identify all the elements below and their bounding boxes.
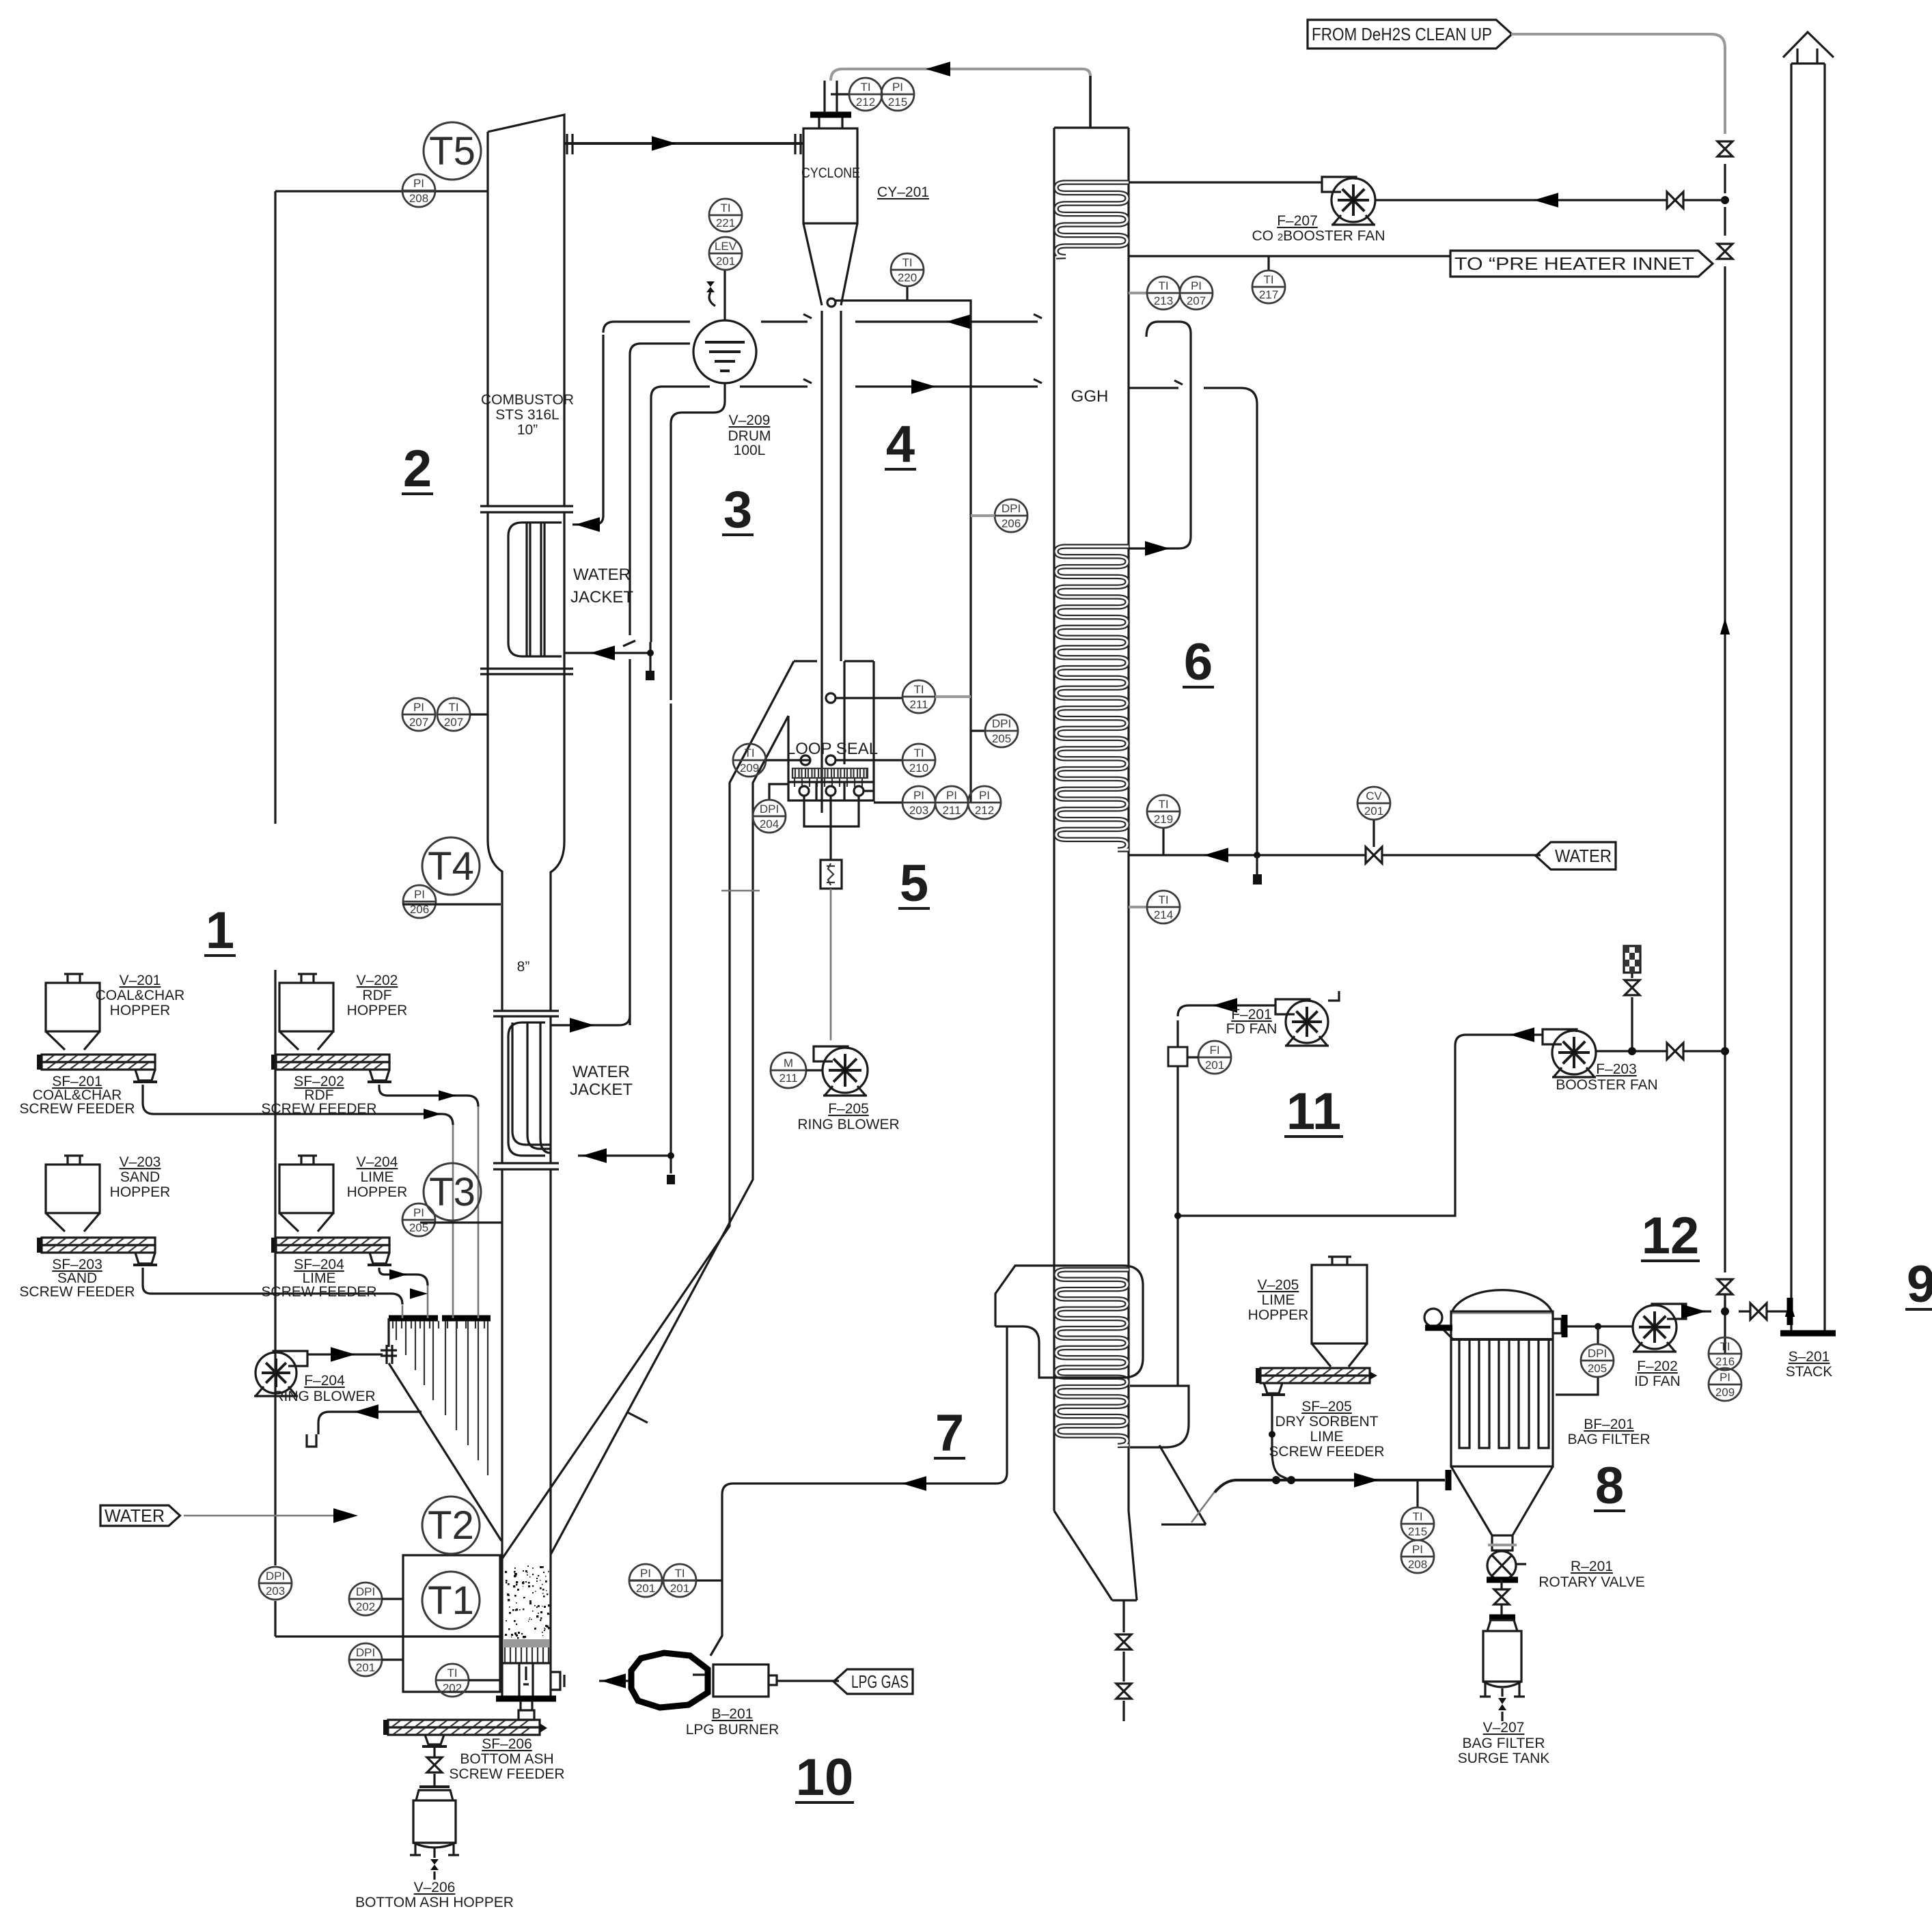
FD fan air line into box B [1176, 1020, 1178, 1386]
svg-text:S–201: S–201 [1789, 1349, 1830, 1365]
svg-text:6: 6 [1184, 633, 1213, 691]
instrument PI-205 [402, 1203, 435, 1236]
fan symbol at 404,2010 [273, 1351, 307, 1366]
crossing line y568 to riser x1840 with jump break [1129, 380, 1257, 855]
svg-text:TI: TI [1158, 893, 1168, 906]
svg-text:V–204: V–204 [357, 1154, 398, 1170]
temperature zone label T4 [422, 837, 480, 895]
svg-text:11: 11 [1286, 1083, 1341, 1141]
svg-text:RING BLOWER: RING BLOWER [273, 1389, 375, 1404]
temperature zone label T1 [422, 1572, 480, 1629]
fan symbol at 1981,293 [1322, 177, 1356, 192]
instrument TI-212 [849, 78, 882, 111]
svg-text:FI: FI [1209, 1044, 1219, 1057]
svg-text:SCREW FEEDER: SCREW FEEDER [449, 1766, 564, 1782]
wire drum right to GGH upper (y471) [761, 314, 1042, 322]
svg-text:PI: PI [1191, 279, 1202, 292]
svg-text:100L: 100L [734, 443, 766, 458]
TI-217 tap [1267, 256, 1269, 270]
windbox internals [519, 1663, 533, 1697]
svg-text:TI: TI [1720, 1340, 1730, 1353]
svg-text:201: 201 [716, 255, 735, 268]
svg-text:WATER: WATER [1555, 846, 1612, 866]
svg-text:F–207: F–207 [1277, 213, 1318, 229]
V-206 bottom ash hopper [419, 1785, 450, 1788]
svg-text:RING BLOWER: RING BLOWER [797, 1117, 899, 1132]
valve (vertical) at 2525,368 [1717, 244, 1733, 259]
svg-text:DPI: DPI [1002, 502, 1021, 515]
svg-text:207: 207 [1187, 294, 1206, 307]
svg-text:HOPPER: HOPPER [110, 1184, 171, 1200]
svg-text:209: 209 [1715, 1386, 1735, 1399]
wire jacket outlet to valve [564, 642, 650, 671]
svg-text:DPI: DPI [266, 1570, 285, 1583]
hopper V&#8211;202 RDF [298, 974, 317, 983]
svg-text:V–207: V–207 [1483, 1720, 1525, 1736]
svg-text:PI: PI [1412, 1543, 1423, 1556]
lime feed line SF-204 [379, 1268, 428, 1285]
svg-text:5: 5 [900, 854, 928, 913]
screw feeder SF&#8211;203 SAND [42, 1238, 155, 1245]
svg-text:COMBUSTOR: COMBUSTOR [481, 392, 574, 408]
svg-text:214: 214 [1154, 908, 1173, 921]
svg-text:201: 201 [356, 1661, 375, 1674]
instrument DPI-204 [753, 800, 786, 833]
pulse header circle [1424, 1309, 1442, 1326]
svg-text:PI: PI [946, 789, 957, 802]
fan symbol at 2422,1943 [1652, 1304, 1686, 1319]
instrument DPI-201 [349, 1643, 382, 1676]
windbox burner nozzle right [551, 1672, 564, 1690]
instrument M-211 [771, 1053, 806, 1088]
svg-text:TI: TI [448, 701, 458, 714]
svg-text:WATER: WATER [105, 1505, 165, 1526]
svg-text:220: 220 [898, 271, 917, 284]
svg-text:LEV: LEV [715, 240, 737, 253]
loop seal air header [804, 796, 859, 860]
temperature zone label T5 [424, 122, 481, 180]
svg-text:10: 10 [796, 1749, 854, 1807]
svg-text:207: 207 [409, 716, 428, 729]
instrument DPI-202 [349, 1583, 382, 1615]
combustor flange below upper jacket [480, 669, 573, 674]
flag TO &#8220;PRE HEATER INNET [1450, 251, 1713, 277]
svg-text:V–206: V–206 [414, 1880, 456, 1895]
svg-text:STS 316L: STS 316L [495, 407, 559, 423]
combustor flange at y1484 [493, 1011, 559, 1016]
wire lower jacket return up to drum [551, 1016, 630, 1025]
svg-text:210: 210 [909, 762, 928, 775]
instrument PI-211 [935, 786, 968, 819]
instrument PI-208 [1401, 1540, 1434, 1573]
svg-text:215: 215 [1408, 1525, 1427, 1538]
loop seal aeration nozzles [799, 786, 809, 796]
svg-text:LIME: LIME [1310, 1429, 1343, 1445]
instrument CV-201 [1357, 787, 1390, 820]
svg-text:TI: TI [720, 201, 730, 214]
TI-215 PI-208 tap [1416, 1480, 1418, 1507]
svg-text:201: 201 [636, 1582, 655, 1595]
svg-text:PI: PI [414, 888, 425, 901]
valve (horizontal) at 2452,293 [1667, 192, 1683, 208]
svg-text:HOPPER: HOPPER [1248, 1307, 1309, 1323]
air outlet from box A down to burner line [710, 1326, 1007, 1656]
svg-text:M: M [784, 1057, 793, 1070]
svg-text:208: 208 [409, 192, 428, 205]
svg-text:F–204: F–204 [304, 1373, 345, 1389]
lower water jacket [508, 1022, 545, 1156]
instrument TI-201 [663, 1564, 696, 1597]
svg-text:208: 208 [1408, 1558, 1427, 1571]
burner blob [631, 1653, 708, 1708]
valve (vertical) at 2525,218 [1717, 141, 1733, 156]
svg-text:BOTTOM ASH HOPPER: BOTTOM ASH HOPPER [355, 1895, 514, 1910]
screw feeder SF&#8211;202 RDF [276, 1055, 389, 1062]
weld tick on downcomer (upper, grey) [721, 890, 760, 892]
hopper V&#8211;201 COAL&amp;CHAR [64, 974, 83, 983]
svg-text:SF–205: SF–205 [1301, 1399, 1352, 1415]
svg-text:201: 201 [1205, 1059, 1224, 1072]
SF-206 bottom ash screw feeder [388, 1720, 540, 1727]
svg-text:1: 1 [206, 902, 234, 960]
valve (vertical) at 1645,2476 [1116, 1684, 1131, 1699]
instrument FI-201 [1198, 1041, 1231, 1074]
svg-text:202: 202 [443, 1682, 462, 1695]
svg-text:JACKET: JACKET [570, 1081, 633, 1099]
svg-text:SCREW FEEDER: SCREW FEEDER [261, 1284, 376, 1300]
svg-text:202: 202 [356, 1600, 375, 1613]
svg-text:CYCLONE: CYCLONE [801, 165, 860, 181]
TI-213 PI-207 tap [1129, 292, 1147, 294]
instrument PI-212 [968, 786, 1001, 819]
svg-text:BAG FILTER: BAG FILTER [1568, 1432, 1651, 1447]
instrument TI-207 [437, 698, 470, 731]
valve (horizontal) at 2452,1539 [1667, 1043, 1683, 1059]
svg-text:DRUM: DRUM [728, 428, 771, 444]
valve (horizontal) at 2011,1252 [1366, 847, 1382, 863]
svg-text:TI: TI [902, 256, 912, 269]
svg-text:PI: PI [413, 701, 424, 714]
cyclone cone [803, 223, 857, 305]
svg-text:219: 219 [1154, 813, 1173, 826]
svg-text:216: 216 [1715, 1355, 1735, 1368]
svg-text:PI: PI [413, 177, 424, 190]
svg-text:ID FAN: ID FAN [1634, 1374, 1681, 1389]
bag filter inlet flange [1446, 1470, 1452, 1490]
svg-text:SCREW FEEDER: SCREW FEEDER [1269, 1444, 1384, 1460]
svg-text:TI: TI [913, 747, 924, 760]
feed drop lines from screw feeders [402, 1104, 478, 1318]
wire drum left 9oclock (pipe2) [623, 344, 690, 1025]
sand feed line SF-203 [143, 1268, 402, 1305]
combustor lower shell to bed [502, 1169, 551, 1697]
svg-text:V–203: V–203 [120, 1154, 161, 1170]
svg-text:9: 9 [1907, 1255, 1932, 1313]
wire lower jacket inlet from drum pipe [578, 704, 671, 1173]
V-207 surge tank [1489, 1615, 1515, 1621]
gas outlet line combustor to cyclone [564, 142, 803, 145]
svg-text:LPG BURNER: LPG BURNER [686, 1722, 779, 1738]
instrument PI-215 [881, 78, 914, 111]
PI-208 long tap line down the left side [376, 190, 488, 192]
svg-text:SAND: SAND [120, 1169, 160, 1185]
instrument TI-220 [891, 253, 924, 286]
svg-text:SF–206: SF–206 [482, 1736, 532, 1752]
weld tick on downcomer [626, 1412, 648, 1423]
orifice box FI-201 [1168, 1047, 1187, 1066]
instrument TI-215 [1401, 1507, 1434, 1540]
svg-text:12: 12 [1642, 1207, 1700, 1265]
flag LPG GAS [833, 1669, 913, 1694]
svg-text:207: 207 [444, 716, 463, 729]
svg-text:8: 8 [1595, 1457, 1624, 1515]
temperature zone label T2 [422, 1496, 480, 1554]
loop seal hatch band [792, 768, 867, 778]
bag filter neck, rotary valve R-201 [1492, 1535, 1513, 1550]
svg-text:ROTARY VALVE: ROTARY VALVE [1538, 1574, 1645, 1590]
svg-text:WATER: WATER [573, 566, 631, 584]
svg-text:PI: PI [913, 789, 924, 802]
water spray line into GGH [1129, 854, 1541, 856]
GGH lower coil [1056, 1270, 1129, 1445]
fan symbol at 1913,1496 [1275, 999, 1310, 1014]
lime drop line to flue duct [1272, 1395, 1290, 1480]
svg-text:BOTTOM ASH: BOTTOM ASH [460, 1751, 553, 1767]
CV-201 control valve actuator [1372, 820, 1375, 847]
svg-text:STACK: STACK [1786, 1364, 1832, 1380]
instrument DPI-205 [985, 714, 1018, 747]
instrument TI-210 [902, 744, 935, 777]
svg-text:204: 204 [760, 818, 779, 831]
svg-text:HOPPER: HOPPER [347, 1003, 408, 1018]
svg-text:TI: TI [674, 1567, 685, 1580]
hopper V&#8211;204 LIME [298, 1156, 317, 1165]
svg-text:205: 205 [992, 732, 1011, 745]
upper water jacket [508, 523, 562, 656]
svg-text:10”: 10” [517, 422, 538, 438]
svg-text:T2: T2 [428, 1503, 474, 1548]
stack S-201 [1791, 64, 1825, 1333]
cyclone CY-201 body [803, 128, 857, 223]
instrument PI-207 [402, 698, 435, 731]
svg-text:HOPPER: HOPPER [347, 1184, 408, 1200]
F-205 suction line [830, 889, 832, 1040]
svg-text:206: 206 [1002, 517, 1021, 530]
combustor flange at y1708 [493, 1163, 559, 1169]
svg-text:BF–201: BF–201 [1584, 1417, 1634, 1432]
svg-text:TI: TI [744, 747, 754, 760]
GGH flue outlet duct to bag filter [1159, 1445, 1206, 1524]
svg-text:7: 7 [935, 1404, 964, 1462]
svg-text:212: 212 [856, 96, 875, 109]
outlet nozzle top right [1553, 1319, 1562, 1333]
svg-text:TO “PRE HEATER INNET: TO “PRE HEATER INNET [1454, 253, 1694, 274]
svg-text:221: 221 [716, 217, 735, 229]
TI tap lines on GGH right [1162, 828, 1164, 855]
svg-text:PI: PI [1720, 1371, 1730, 1384]
drain valve small [667, 1175, 675, 1184]
svg-text:LPG GAS: LPG GAS [851, 1671, 909, 1692]
svg-text:217: 217 [1259, 288, 1278, 301]
wire drum to jacket top (pipe1) [603, 322, 690, 333]
instrument DPI-206 [995, 499, 1027, 532]
flag WATER [1536, 842, 1616, 869]
distributor teeth [505, 1647, 549, 1662]
instrument PI-201 [629, 1564, 662, 1597]
valve (horizontal) at 2574,1920 [1750, 1303, 1767, 1320]
svg-text:TI: TI [1263, 273, 1273, 286]
svg-text:RDF: RDF [362, 988, 391, 1003]
instrument TI-213 [1147, 277, 1180, 309]
svg-text:T4: T4 [428, 844, 474, 889]
svg-text:B–201: B–201 [712, 1706, 754, 1722]
instrument PI-208 [402, 174, 435, 207]
svg-text:201: 201 [1364, 805, 1383, 818]
svg-text:211: 211 [942, 804, 961, 817]
instrument DPI-205 [1581, 1344, 1614, 1377]
svg-text:F–201: F–201 [1231, 1007, 1272, 1022]
svg-text:CV: CV [1366, 790, 1382, 803]
wire drum 8oclock (pipe3) [651, 387, 710, 642]
svg-text:F–203: F–203 [1596, 1061, 1637, 1077]
fan symbol at 1237,1567 [814, 1046, 848, 1061]
valve (vertical) at 2389,1446 [1625, 980, 1640, 995]
svg-text:DPI: DPI [356, 1585, 375, 1598]
instrument LEV-201 [709, 237, 742, 270]
svg-text:203: 203 [909, 804, 928, 817]
instrument PI-207 [1180, 277, 1213, 309]
svg-text:DPI: DPI [1588, 1347, 1607, 1360]
branch to F-203 booster fan [1178, 1035, 1543, 1216]
svg-text:R–201: R–201 [1571, 1559, 1613, 1574]
instrument PI-203 [902, 786, 935, 819]
svg-text:HOPPER: HOPPER [110, 1003, 171, 1018]
instrument TI-216 [1709, 1337, 1741, 1370]
riser line from cyclone cone to GGH area [836, 301, 971, 803]
svg-text:211: 211 [779, 1072, 797, 1085]
valve (vertical) at 2525,1884 [1717, 1279, 1733, 1294]
svg-text:TI: TI [1158, 279, 1168, 292]
long feed pipes inside funnel [396, 1321, 488, 1475]
instrument PI-209 [1709, 1368, 1741, 1401]
svg-text:COAL&CHAR: COAL&CHAR [96, 988, 185, 1003]
svg-text:TI: TI [1158, 798, 1168, 811]
F-207 CO2 booster fan line [1375, 199, 1725, 201]
svg-text:V–205: V–205 [1258, 1277, 1299, 1293]
silencer box on F-205 line [820, 860, 842, 889]
svg-text:CO 2BOOSTER FAN: CO 2BOOSTER FAN [1252, 228, 1385, 244]
wire drum bottom (pipe4) [671, 383, 725, 700]
svg-text:T5: T5 [429, 129, 475, 173]
valve (vertical) at 1645,2404 [1116, 1634, 1131, 1649]
cyclone top nozzle and flange [819, 117, 842, 128]
instrument PI-206 [403, 885, 436, 918]
drum vent line with valve [723, 270, 726, 320]
riser down right side [1724, 164, 1726, 1311]
cyclone outlet elbow to GGH (grey) [831, 69, 1090, 128]
instrument TI-211 [902, 680, 935, 713]
funnel walls [389, 1318, 501, 1541]
F-207 suction/discharge lines at GGH top [1129, 181, 1323, 183]
combustor shell (wide 10in section) [488, 115, 564, 506]
svg-text:WATER: WATER [572, 1063, 630, 1081]
svg-text:PI: PI [892, 81, 903, 94]
coal feed line SF-201 [143, 1085, 453, 1125]
svg-text:T3: T3 [429, 1170, 475, 1214]
GGH cone and bottom drain [1054, 1511, 1137, 1600]
svg-text:GGH: GGH [1071, 387, 1109, 406]
svg-text:211: 211 [909, 698, 928, 711]
svg-text:212: 212 [975, 804, 994, 817]
svg-text:SCREW FEEDER: SCREW FEEDER [19, 1101, 135, 1117]
svg-text:DPI: DPI [992, 717, 1011, 730]
svg-text:PI: PI [640, 1567, 651, 1580]
section 6 recirculation loop [1129, 322, 1191, 548]
svg-text:BAG FILTER: BAG FILTER [1463, 1736, 1545, 1751]
svg-text:203: 203 [266, 1585, 285, 1598]
loop seal box [788, 764, 874, 800]
combustor flange at y745 [480, 506, 573, 512]
bottom flange [496, 1696, 556, 1702]
svg-text:V–209: V–209 [729, 413, 771, 428]
instrument TI-221 [709, 199, 742, 232]
loop seal comb teeth [795, 778, 862, 787]
svg-text:205: 205 [1588, 1362, 1607, 1375]
RDF feed line SF-202 [379, 1085, 478, 1106]
instrument TI-202 [436, 1664, 469, 1697]
instrument TI-209 [733, 744, 766, 777]
svg-text:209: 209 [740, 762, 759, 775]
svg-text:TI: TI [913, 683, 924, 696]
svg-text:BOOSTER FAN: BOOSTER FAN [1556, 1077, 1657, 1093]
svg-text:FROM DeH2S CLEAN UP: FROM DeH2S CLEAN UP [1312, 24, 1492, 44]
svg-text:3: 3 [723, 481, 752, 539]
GGH middle coil [1056, 546, 1129, 850]
svg-text:LIME: LIME [360, 1169, 394, 1185]
instrument TI-214 [1147, 891, 1180, 923]
GGH top coil [1056, 182, 1129, 257]
svg-text:TI: TI [447, 1667, 457, 1680]
wire drum lower right to GGH (y568) [740, 379, 1042, 387]
flag WATER [100, 1505, 180, 1526]
svg-text:F–205: F–205 [828, 1101, 869, 1117]
svg-text:CY–201: CY–201 [877, 184, 929, 200]
bag filter outlet line to ID fan [1565, 1325, 1633, 1327]
support to SF-206 [519, 1701, 534, 1720]
svg-text:FD FAN: FD FAN [1226, 1021, 1278, 1037]
jacket tubes curving out [512, 1022, 551, 1145]
screw feeder SF&#8211;201 COAL&amp;CHAR [42, 1055, 155, 1062]
instrument DPI-203 [259, 1567, 292, 1600]
svg-text:V–201: V–201 [120, 973, 161, 988]
svg-text:201: 201 [670, 1582, 689, 1595]
svg-text:213: 213 [1154, 294, 1173, 307]
valve (vertical) at 2198,2338 [1494, 1589, 1509, 1604]
GGH top inlet pipe [1089, 76, 1091, 128]
svg-text:JACKET: JACKET [570, 588, 633, 607]
svg-text:DPI: DPI [760, 803, 779, 816]
instrument TI-217 [1252, 270, 1285, 303]
svg-text:SURGE TANK: SURGE TANK [1458, 1751, 1550, 1766]
flag FROM DeH2S CLEAN UP [1308, 20, 1512, 48]
svg-text:SCREW FEEDER: SCREW FEEDER [19, 1284, 135, 1300]
svg-text:TI: TI [860, 81, 870, 94]
svg-text:T1: T1 [428, 1578, 474, 1623]
fan symbol at 2304,1541 [1543, 1029, 1577, 1044]
svg-text:DPI: DPI [356, 1646, 375, 1659]
hopper V&#8211;203 SAND [64, 1156, 83, 1165]
svg-text:215: 215 [888, 96, 907, 109]
